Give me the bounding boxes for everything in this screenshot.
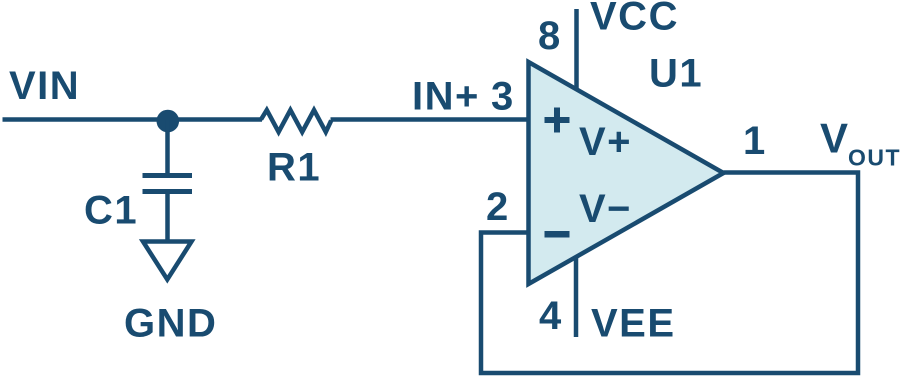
svg-text:V−: V− bbox=[579, 187, 632, 231]
wire VEE stub bbox=[574, 256, 579, 337]
op-amp U1 triangle bbox=[529, 62, 724, 284]
svg-text:VIN: VIN bbox=[9, 64, 80, 108]
resistor R1 bbox=[261, 110, 331, 132]
svg-text:V+: V+ bbox=[579, 120, 632, 164]
wire capacitor to ground bbox=[165, 192, 170, 242]
wire junction to capacitor C1 bbox=[165, 120, 170, 177]
svg-text:VCC: VCC bbox=[590, 0, 679, 39]
svg-text:4: 4 bbox=[539, 294, 563, 338]
junction dot bbox=[157, 110, 180, 133]
wire VIN input segment bbox=[3, 117, 263, 122]
capacitor C1 bbox=[143, 176, 193, 192]
svg-text:GND: GND bbox=[124, 302, 217, 346]
svg-text:1: 1 bbox=[743, 119, 767, 163]
op-amp minus input symbol bbox=[545, 231, 570, 238]
wire feedback loop from inverting input to output bbox=[481, 173, 858, 374]
svg-text:U1: U1 bbox=[649, 52, 703, 96]
svg-text:2: 2 bbox=[486, 185, 510, 229]
svg-text:VEE: VEE bbox=[591, 302, 676, 346]
op-amp plus input symbol bbox=[545, 108, 570, 133]
svg-text:C1: C1 bbox=[84, 189, 138, 233]
wire resistor to op-amp non-inverting input bbox=[331, 117, 529, 122]
svg-text:V: V bbox=[820, 115, 850, 162]
svg-text:R1: R1 bbox=[267, 146, 321, 190]
svg-text:8: 8 bbox=[538, 14, 562, 58]
svg-text:3: 3 bbox=[491, 75, 515, 119]
svg-text:IN+: IN+ bbox=[412, 75, 480, 119]
svg-text:OUT: OUT bbox=[848, 145, 900, 171]
ground symbol bbox=[143, 242, 192, 280]
wire VCC stub bbox=[574, 9, 579, 90]
